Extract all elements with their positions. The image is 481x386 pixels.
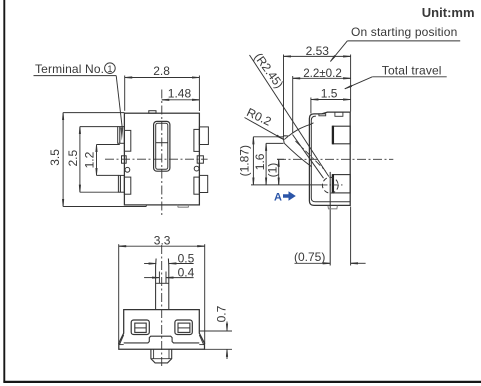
front inner bottom with center notch [124, 336, 200, 343]
page bottom border [3, 381, 481, 383]
plan right center tab [197, 156, 203, 163]
dimension 0.4 [144, 266, 195, 280]
front right ledge [199, 344, 204, 346]
plan lower-left tab inner line [119, 175, 121, 192]
front right chamfer line [199, 335, 203, 345]
plan right hole [194, 166, 199, 171]
svg-text:0.7: 0.7 [215, 305, 229, 322]
side lower cutout heavy edge [332, 174, 334, 193]
front shaft right inner [165, 272, 167, 284]
front left terminal hole outer [131, 320, 149, 335]
svg-text:1: 1 [107, 64, 112, 74]
svg-text:A: A [274, 191, 282, 203]
side top notch 2 [335, 112, 343, 116]
plan lower-left boss [124, 177, 130, 194]
plan slot mid line [156, 142, 168, 144]
front protrusion inner right [168, 349, 170, 358]
svg-text:(1): (1) [265, 163, 279, 178]
leader R0.2 [245, 118, 284, 140]
leader Total travel [345, 77, 373, 89]
side upper cutout heavy edge [332, 126, 334, 145]
dimension (0.75) [294, 207, 366, 266]
dimension 1.6 [253, 143, 284, 185]
dimension 2.5 [66, 127, 119, 193]
front left terminal hole mid line [135, 327, 146, 329]
plan bottom-right bump [177, 205, 189, 207]
svg-text:2.53: 2.53 [306, 44, 330, 58]
svg-text:0.5: 0.5 [178, 252, 195, 266]
dimension 1.2 [82, 145, 119, 176]
front right terminal hole inner [178, 323, 190, 332]
svg-text:(0.75): (0.75) [294, 250, 325, 264]
side lever top edge arc [289, 124, 311, 136]
side bottom reference line [251, 184, 322, 186]
side pivot center line horizontal [322, 184, 345, 186]
front right terminal hole mid line [178, 327, 190, 329]
side pivot circle [322, 177, 338, 193]
svg-text:2.2±0.2: 2.2±0.2 [303, 67, 342, 80]
dimension 0.5 [144, 252, 195, 266]
side top notch 1 [319, 114, 326, 116]
svg-text:(1.87): (1.87) [238, 145, 252, 176]
plan horizontal center line [105, 158, 208, 160]
plan upper-left boss [124, 130, 130, 151]
svg-text:Total travel: Total travel [382, 64, 442, 78]
plan upper-left tab inner line [119, 127, 121, 144]
svg-text:2.5: 2.5 [66, 149, 80, 166]
svg-text:2.8: 2.8 [153, 64, 170, 78]
front protrusion divider [151, 358, 172, 360]
side travel arc phantom left stub [284, 135, 289, 139]
plan upper-left tab [118, 127, 125, 144]
svg-text:0.4: 0.4 [178, 266, 195, 280]
plan upper-right tab [199, 127, 208, 145]
plan left hole [125, 167, 130, 172]
leader Terminal No.1 [116, 76, 122, 129]
svg-text:1.5: 1.5 [321, 87, 338, 101]
front shaft left inner [158, 272, 160, 284]
label A arrow [274, 191, 296, 203]
front left terminal hole inner [135, 323, 146, 332]
leader R2.45 [250, 55, 329, 177]
side center line [277, 158, 393, 160]
leader On starting position [330, 41, 347, 62]
dimension 3.5 [48, 113, 147, 207]
dimension 2.53 [284, 44, 351, 136]
side bottom pin bump [328, 206, 337, 209]
dimension 2.2±0.2 [293, 67, 351, 133]
page left border [3, 0, 5, 383]
svg-text:Terminal No.: Terminal No. [35, 62, 104, 76]
svg-text:3.5: 3.5 [48, 149, 62, 166]
front vertical center line [161, 245, 163, 369]
side lower cutout [333, 175, 350, 193]
plan upper-right boss [194, 129, 200, 151]
plan vertical center line [161, 90, 163, 217]
side lever lower edge [284, 143, 312, 167]
svg-text:Unit:mm: Unit:mm [422, 5, 475, 20]
plan left center tab [122, 156, 127, 163]
dimension 1.5 [311, 87, 351, 114]
dimension 1.48 [162, 86, 200, 100]
plan body outline [124, 113, 199, 205]
label On starting position underline [347, 40, 460, 42]
side lever phantom position [296, 141, 326, 171]
front left ledge [119, 344, 124, 346]
front shaft left outer [155, 259, 158, 310]
side lever beak [283, 136, 288, 144]
plan bottom-left step [145, 205, 147, 207]
side travel arc phantom right stub [309, 123, 313, 125]
plan slot outer [154, 121, 170, 171]
svg-text:1.2: 1.2 [82, 151, 96, 168]
plan lower-right boss [194, 177, 200, 194]
plan top bump [149, 111, 156, 114]
plan lower-right tab [199, 175, 207, 192]
plan slot inner [156, 123, 168, 169]
front left chamfer line [120, 335, 124, 345]
dimension (1.87) [238, 137, 284, 185]
dimension 2.8 [125, 64, 200, 111]
dimension 3.3 [119, 233, 205, 344]
side pivot pin line [329, 172, 331, 266]
front protrusion inner left [153, 349, 155, 358]
side body outer outline [309, 112, 350, 205]
svg-text:On starting position: On starting position [351, 25, 457, 39]
plan upper-left tab shading [120, 127, 123, 140]
dimension 0.7 [199, 305, 232, 359]
side body inner wall [311, 116, 350, 202]
front bottom protrusion [151, 349, 172, 363]
label Terminal No.1 underline [34, 75, 117, 77]
svg-text:1.48: 1.48 [168, 86, 192, 100]
front shaft step line [156, 282, 169, 284]
label Terminal No.1 [35, 62, 115, 76]
front right terminal hole outer [175, 320, 192, 335]
svg-text:3.3: 3.3 [154, 233, 171, 247]
front shaft right outer [167, 259, 169, 310]
plan lower-left tab [118, 175, 124, 192]
front body outline [119, 310, 205, 350]
dimension (1) [265, 159, 284, 185]
side lever inner edge [293, 135, 324, 179]
label Total travel underline [372, 76, 446, 78]
side upper cutout [333, 126, 350, 144]
